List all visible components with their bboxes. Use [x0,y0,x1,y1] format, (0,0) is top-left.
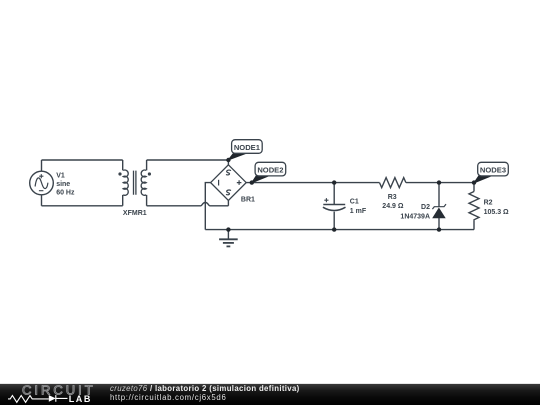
svg-text:NODE1: NODE1 [234,143,261,152]
svg-text:sine: sine [56,181,70,188]
wire D2 bottom stub [438,218,440,230]
zener diode D2 [432,204,446,218]
wire bridge bottom stub [227,200,229,206]
BR1 minus mark [218,180,220,186]
C1 plus mark [324,198,328,202]
voltage source V1 [30,171,54,195]
junction C1 bottom [332,227,336,231]
wire secondary bottom with hop over ground wire [147,203,229,206]
XFMR1 right vertical leads [146,160,148,206]
svg-text:24.9 Ω: 24.9 Ω [382,203,404,210]
XFMR1 secondary winding [141,170,146,195]
wire bottom rail [205,229,474,231]
wire bridge left vertex to bottom rail [205,183,210,230]
resistor R3 [380,178,406,188]
svg-text:R3: R3 [388,194,397,201]
wire D2 top stub [438,183,440,207]
C1 value labels [350,199,367,215]
junction at NODE2 anchor [250,180,254,184]
svg-text:1N4739A: 1N4739A [400,213,430,220]
wire C1 top stub [333,183,335,205]
junction R2 top NODE3 anchor [472,180,476,184]
V1 value labels [56,173,75,197]
XFMR1 polarity dot secondary [148,172,151,175]
R2 value labels [484,199,509,215]
footer url text [110,393,227,402]
junction D2 bottom [437,227,441,231]
wire bridge top stub [227,160,229,165]
capacitor C1 [323,198,346,210]
junction at NODE1 anchor [226,158,230,162]
svg-text:D2: D2 [421,204,430,211]
transformer XFMR1 [118,160,151,206]
BR1 AC mark bottom [226,190,231,195]
wire R2 bottom stub [473,221,475,230]
R3 value labels [382,194,404,210]
XFMR1 primary winding [123,170,128,195]
wire C1 bottom stub [333,212,335,230]
svg-text:NODE3: NODE3 [480,166,506,175]
svg-text:LAB: LAB [69,394,92,404]
junction ground [226,227,230,231]
wire secondary top [147,159,229,161]
svg-text:NODE2: NODE2 [257,166,283,175]
node NODE2 [252,162,286,183]
svg-text:XFMR1: XFMR1 [123,210,147,217]
svg-text:1 mF: 1 mF [350,208,367,215]
svg-text:V1: V1 [56,173,65,180]
D2 value labels [400,204,430,221]
bridge rectifier BR1 [211,165,247,201]
BR1 AC mark top [226,170,231,175]
svg-text:R2: R2 [484,199,493,206]
CircuitLab logo resistor-diode art [8,396,49,403]
wire top DC rail right of R3 [406,182,474,184]
XFMR1 left vertical leads [122,160,124,206]
svg-text:105.3 Ω: 105.3 Ω [484,209,509,216]
ground [219,230,238,247]
wire R2 top stub [473,183,475,192]
wire V1 bottom stub [41,195,43,206]
wire primary top [42,159,123,161]
wire top DC rail [246,182,379,184]
svg-text:BR1: BR1 [241,196,255,203]
svg-text:60 Hz: 60 Hz [56,189,75,196]
wire primary bottom [42,205,123,207]
junction C1 top [332,180,336,184]
BR1 plus mark [237,180,242,185]
wire V1 top stub [41,160,43,171]
svg-text:C1: C1 [350,199,359,206]
XFMR1 polarity dot primary [118,172,121,175]
resistor R2 [469,192,479,221]
node NODE1 [228,140,262,160]
node NODE3 [474,162,508,183]
footer title text [110,384,300,393]
XFMR1 core [134,171,136,195]
junction D2 top [437,180,441,184]
